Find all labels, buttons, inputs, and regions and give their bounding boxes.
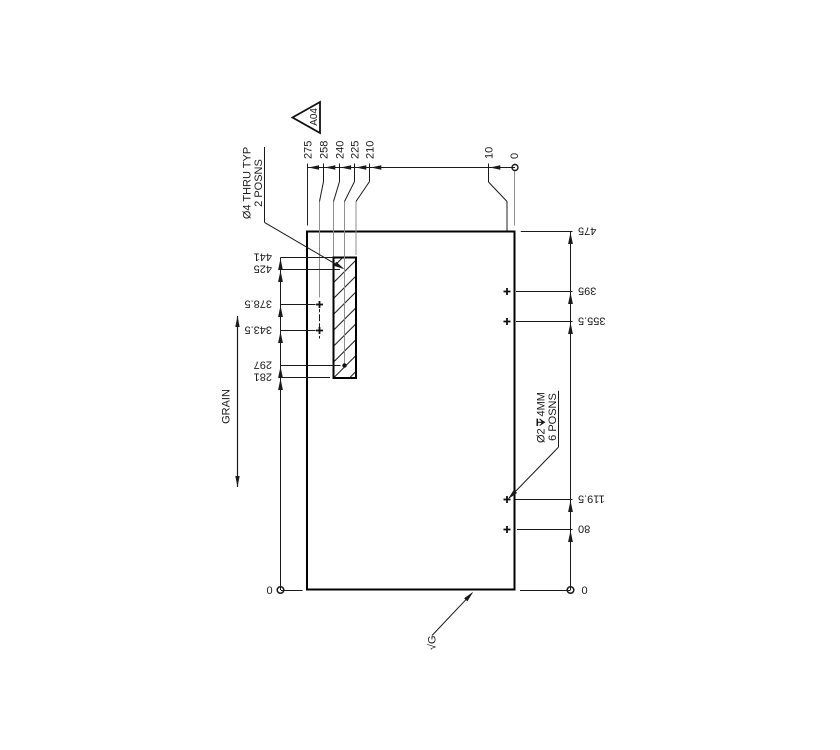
svg-text:A04: A04 <box>309 108 320 126</box>
svg-text:Ø2: Ø2 <box>535 428 547 443</box>
svg-text:258: 258 <box>319 141 331 159</box>
svg-text:275: 275 <box>303 141 315 159</box>
svg-text:0: 0 <box>266 585 272 597</box>
svg-text:281: 281 <box>254 371 272 383</box>
svg-text:119.5: 119.5 <box>578 493 605 505</box>
svg-text:2 POSNS: 2 POSNS <box>253 159 265 207</box>
svg-text:√G: √G <box>427 635 439 650</box>
svg-text:4MM: 4MM <box>535 392 547 416</box>
svg-text:80: 80 <box>578 523 590 535</box>
svg-text:378.5: 378.5 <box>244 298 272 310</box>
svg-text:355.5: 355.5 <box>578 315 606 327</box>
svg-text:475: 475 <box>578 225 596 237</box>
svg-text:343.5: 343.5 <box>244 324 272 336</box>
svg-text:240: 240 <box>335 141 347 159</box>
svg-text:10: 10 <box>484 147 496 159</box>
svg-text:0: 0 <box>509 153 521 159</box>
svg-text:210: 210 <box>365 141 377 159</box>
svg-text:425: 425 <box>254 263 272 275</box>
svg-text:441: 441 <box>254 251 272 263</box>
svg-text:225: 225 <box>350 141 362 159</box>
svg-text:0: 0 <box>582 585 588 597</box>
svg-text:6 POSNS: 6 POSNS <box>547 393 559 441</box>
svg-text:Ø4 THRU TYP: Ø4 THRU TYP <box>242 147 254 219</box>
svg-text:297: 297 <box>254 359 272 371</box>
svg-text:395: 395 <box>578 285 596 297</box>
svg-text:GRAIN: GRAIN <box>221 389 233 424</box>
